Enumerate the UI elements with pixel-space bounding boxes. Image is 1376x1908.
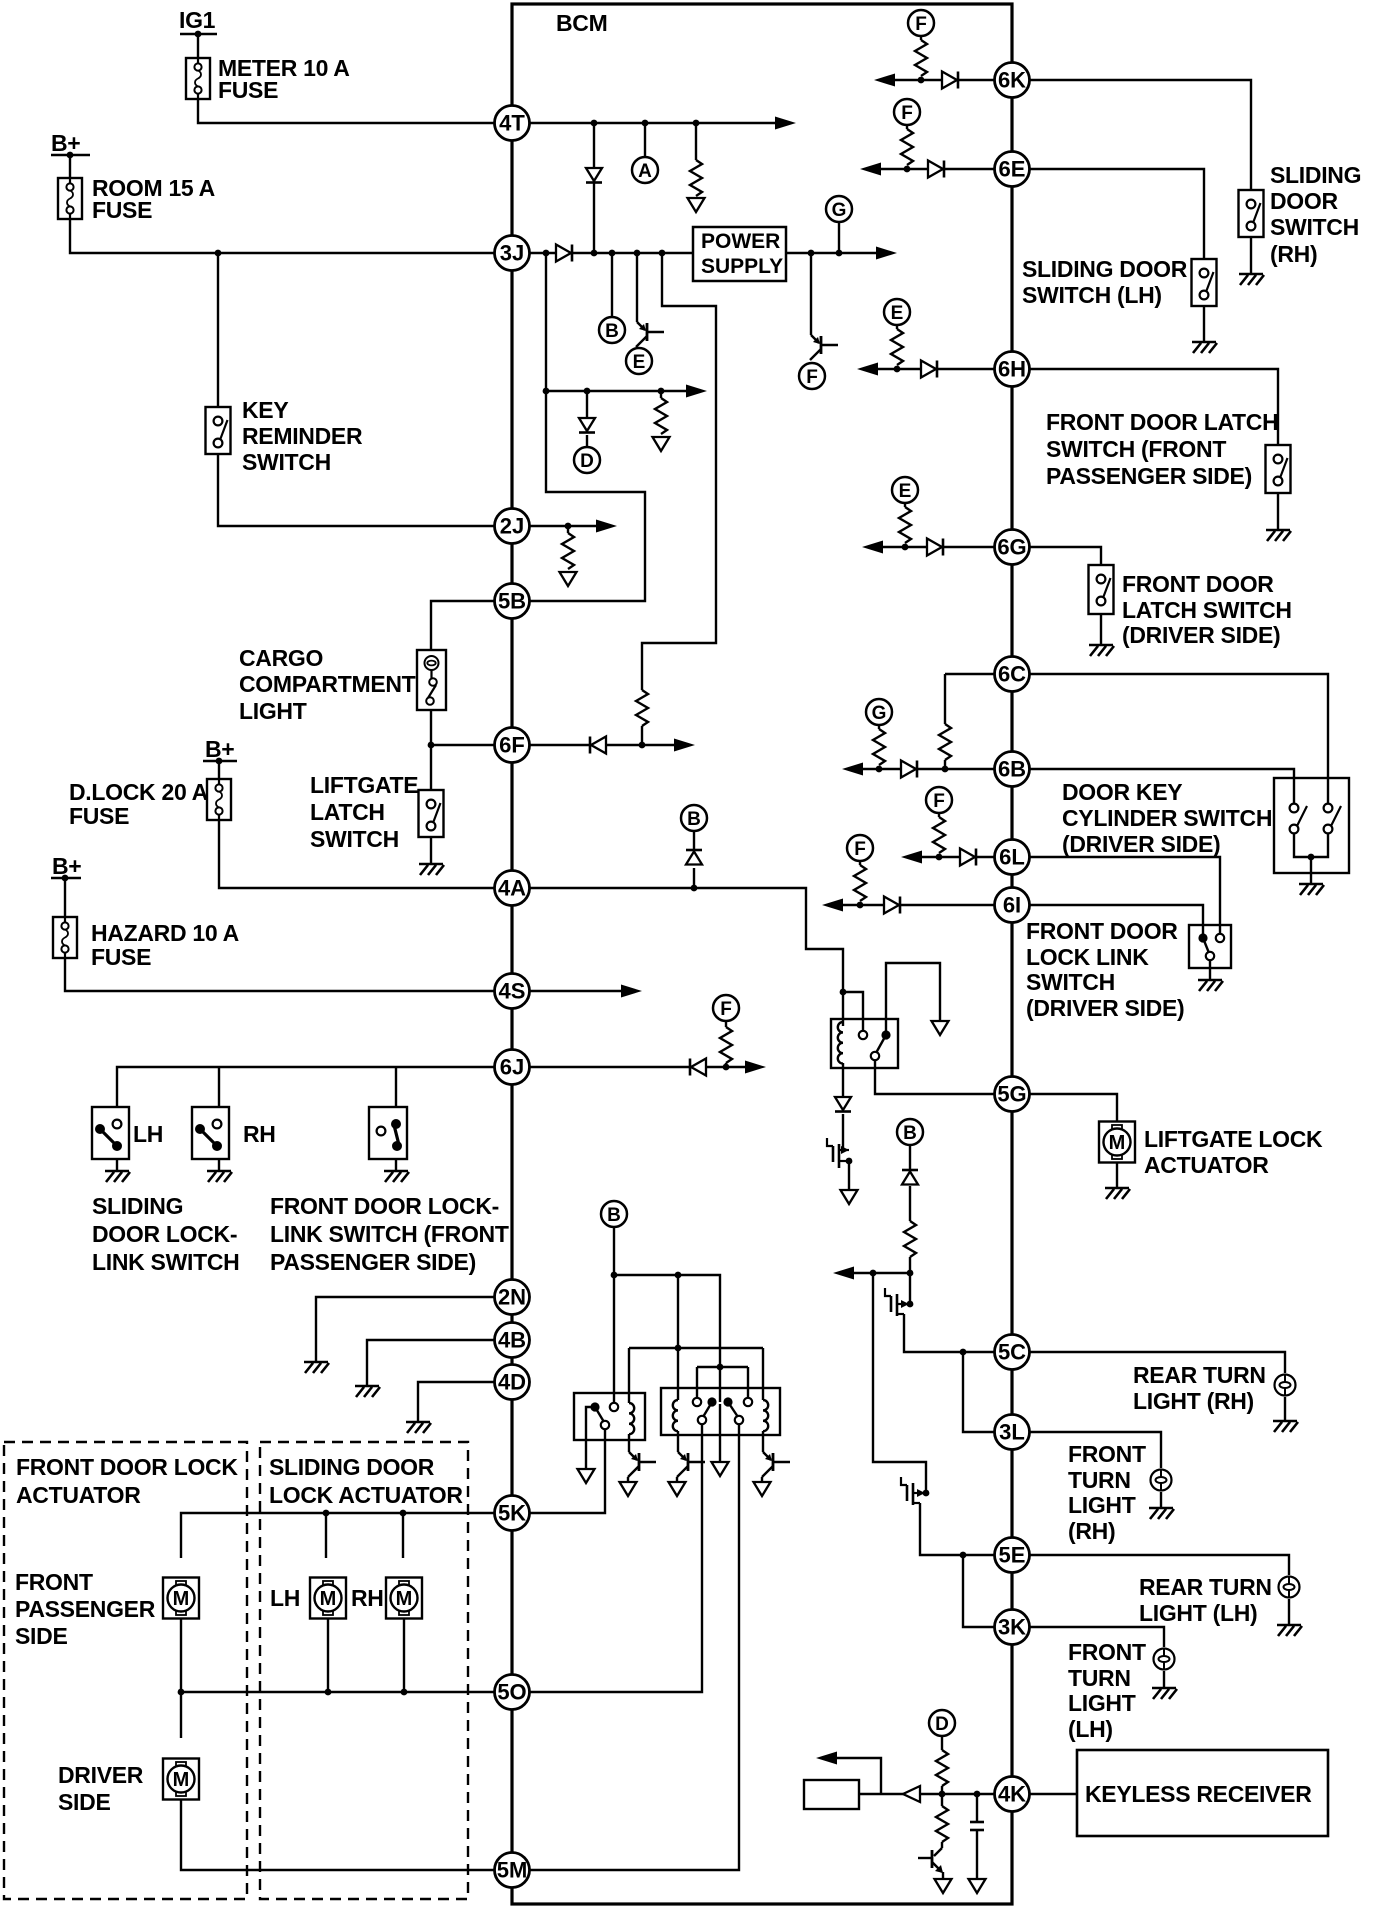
wire 6C inside (945, 673, 994, 675)
svg-text:G: G (832, 200, 847, 221)
junction 4T A (642, 120, 649, 127)
svg-text:FRONT: FRONT (1068, 1639, 1146, 1665)
diode relay coil (835, 1097, 851, 1110)
diode turn chain (902, 1169, 918, 1172)
wire to node B2 (693, 831, 695, 850)
ground driver latch switch (1089, 645, 1114, 656)
svg-text:(DRIVER SIDE): (DRIVER SIDE) (1026, 995, 1184, 1021)
wire B+ to d.lock fuse (218, 761, 220, 779)
svg-text:3K: 3K (998, 1615, 1026, 1640)
svg-text:6E: 6E (999, 157, 1026, 182)
wire 5K to LH motor (325, 1513, 327, 1558)
svg-text:SLIDING: SLIDING (92, 1193, 183, 1219)
relay1 pole (601, 1421, 609, 1429)
wire 5E to 3K (963, 1555, 994, 1627)
sliding door switch LH (1192, 259, 1217, 306)
wire resistor to junction (909, 1257, 911, 1273)
node F power (799, 363, 825, 389)
wire 6E to sliding door switch LH (1029, 169, 1204, 259)
wire 6K to sliding door switch RH (1029, 80, 1251, 190)
wire to node A (644, 123, 646, 157)
junction 6B 6C (942, 766, 949, 773)
wire coil bus right down (762, 1348, 764, 1400)
wire coil bus (629, 1347, 763, 1349)
svg-text:4A: 4A (498, 876, 526, 901)
wire transistor1 to ground (627, 1477, 629, 1482)
connector 5O (495, 1675, 530, 1710)
svg-text:E: E (633, 352, 646, 373)
wire resistor to 6F line (641, 726, 643, 745)
arrow 2J (596, 520, 617, 533)
svg-text:DOOR KEY: DOOR KEY (1062, 779, 1182, 805)
svg-text:LIFTGATE LOCK: LIFTGATE LOCK (1144, 1126, 1323, 1152)
svg-text:(DRIVER SIDE): (DRIVER SIDE) (1122, 622, 1280, 648)
wire 3L to front turn light RH (1029, 1432, 1161, 1468)
svg-text:F: F (933, 791, 945, 812)
node F 6J (713, 995, 739, 1021)
connector 5K (495, 1496, 530, 1531)
wire FP motor to 5O (180, 1619, 182, 1692)
ground 2N (304, 1362, 329, 1373)
svg-text:6B: 6B (998, 757, 1026, 782)
wire rear turn LH ground (1288, 1599, 1290, 1625)
svg-text:LIGHT: LIGHT (239, 698, 307, 724)
junction 3J e (659, 250, 666, 257)
wire coil feed left (677, 1275, 679, 1400)
diode D branch (579, 418, 595, 431)
MOSFET liftgate (839, 1149, 849, 1151)
wire MOSFET to ground arrow (848, 1161, 850, 1190)
ground liftgate latch (419, 864, 444, 875)
junction 2J (565, 523, 572, 530)
wire 6L line (907, 856, 994, 858)
motor driver side (163, 1759, 199, 1800)
relay1 contact closed (590, 1402, 599, 1411)
front door latch switch (front passenger side) (1266, 445, 1291, 493)
arrow D line (686, 385, 707, 398)
svg-text:SWITCH (LH): SWITCH (LH) (1022, 282, 1162, 308)
POWER SUPPLY box (693, 227, 786, 281)
wire B+ to hazard fuse (64, 878, 66, 917)
svg-text:M: M (1109, 1132, 1126, 1154)
wire 6C to door key cylinder switch (1029, 674, 1328, 803)
svg-text:F: F (806, 367, 818, 388)
relay1 coil (629, 1403, 634, 1434)
wire door key to ground (1310, 857, 1312, 884)
svg-text:F: F (901, 103, 913, 124)
diode 6L (960, 849, 975, 866)
arrow 6J (745, 1061, 766, 1074)
wire relay1 coil to transistor (628, 1434, 630, 1452)
wire 4T line (512, 122, 787, 124)
wire key reminder to 2J (218, 454, 494, 526)
relay2 pole right (735, 1416, 743, 1424)
svg-text:(RH): (RH) (1068, 1518, 1115, 1544)
wire 4K line (860, 1793, 994, 1795)
svg-text:DOOR: DOOR (1270, 188, 1338, 214)
wire door key cylinder join (1294, 833, 1328, 857)
wire 6I line (828, 904, 994, 906)
svg-text:FRONT DOOR: FRONT DOOR (1026, 918, 1178, 944)
svg-text:KEY: KEY (242, 397, 288, 423)
wire relay1 pole to 5K (512, 1429, 605, 1513)
front turn light RH lamp (1151, 1470, 1172, 1491)
svg-text:D: D (935, 1714, 949, 1735)
fuse METER 10 A (186, 58, 210, 99)
connector 5G (995, 1077, 1030, 1112)
front door lock-link switch (front passenger side) (369, 1107, 407, 1159)
svg-text:HAZARD 10 A: HAZARD 10 A (91, 920, 239, 946)
svg-text:5B: 5B (498, 589, 526, 614)
connector 3K (995, 1610, 1030, 1645)
BCM module box (512, 4, 1012, 1904)
svg-text:REAR TURN: REAR TURN (1139, 1574, 1272, 1600)
key reminder switch (206, 407, 231, 454)
diode 6K (942, 72, 957, 89)
junction D resistor (658, 388, 665, 395)
arrow 6G (862, 541, 883, 554)
wire keyless arrow up (824, 1758, 881, 1794)
junction 6J resistor (723, 1064, 730, 1071)
wire relay contact feed (843, 992, 863, 1031)
connector 4S (495, 974, 530, 1009)
wire B line to relay1 contact (613, 1275, 615, 1402)
svg-text:A: A (638, 161, 652, 182)
wire to key reminder switch (217, 253, 219, 407)
connector 6L (995, 840, 1030, 875)
connector 3J (495, 236, 530, 271)
node B turn (897, 1119, 923, 1145)
wire 6B line (848, 768, 994, 770)
relay2 contact open right (744, 1398, 752, 1406)
svg-text:FRONT DOOR: FRONT DOOR (1122, 571, 1274, 597)
capacitor keyless (976, 1794, 978, 1822)
junction 6I (857, 902, 864, 909)
resistor 6B G (878, 725, 880, 729)
svg-text:SUPPLY: SUPPLY (701, 255, 783, 278)
wire 5K bus (181, 1513, 494, 1558)
resistor 4T branch (695, 123, 697, 160)
ground arrow relay2 coil right (754, 1482, 771, 1496)
svg-text:5C: 5C (998, 1340, 1026, 1365)
rear turn light RH lamp (1275, 1375, 1296, 1396)
front door lock link switch (driver side) box (1189, 925, 1231, 968)
wire to MOSFET 5C (909, 1273, 911, 1304)
junction 6K (918, 77, 925, 84)
wire MOSFET 5E to 5E (920, 1503, 994, 1555)
node G 6B (866, 699, 892, 725)
wire 4B to ground (367, 1340, 494, 1386)
svg-text:SWITCH: SWITCH (1270, 214, 1359, 240)
wire relay pole to 5G (875, 1060, 994, 1094)
svg-text:SIDE: SIDE (58, 1789, 110, 1815)
connector 6K (995, 63, 1030, 98)
node F 6I (847, 835, 873, 861)
liftgate relay contact closed (881, 1030, 890, 1039)
svg-text:FUSE: FUSE (218, 77, 278, 103)
relay2 coil right (763, 1400, 768, 1431)
wire relay bus (614, 1275, 720, 1402)
junction 6F (639, 742, 646, 749)
ground lock link switch (1198, 980, 1223, 991)
node F 6L (926, 787, 952, 813)
connector 6F (495, 728, 530, 763)
svg-text:2N: 2N (498, 1285, 526, 1310)
svg-text:M: M (173, 1769, 190, 1791)
svg-text:DRIVER: DRIVER (58, 1762, 144, 1788)
wire relay2 center ground (719, 1404, 721, 1462)
node G (826, 196, 852, 222)
svg-text:6K: 6K (998, 68, 1026, 93)
door key cylinder contact R1 (1324, 804, 1333, 813)
junction power supply out (808, 250, 815, 257)
junction relay bus left (611, 1272, 618, 1279)
svg-text:FRONT: FRONT (1068, 1441, 1146, 1467)
wire 5C to 3L (963, 1352, 994, 1432)
fuse HAZARD 10 A (53, 917, 77, 958)
wire 6J to FP lock-link switch (395, 1067, 397, 1107)
motor RH (386, 1578, 422, 1619)
svg-text:BCM: BCM (556, 10, 607, 36)
svg-text:RH: RH (351, 1585, 384, 1611)
diode 6G (927, 539, 942, 556)
svg-text:FRONT DOOR LOCK: FRONT DOOR LOCK (16, 1454, 238, 1480)
wire room fuse to 3J (70, 219, 494, 253)
wire 6J bus (117, 1067, 494, 1107)
resistor keyless lower (941, 1794, 943, 1806)
connector 4T (495, 106, 530, 141)
diode 6I (884, 897, 899, 914)
wire transistor2l ground (676, 1477, 678, 1482)
ground FP latch switch (1266, 530, 1291, 541)
junction 6H (894, 366, 901, 373)
wire RH switch to ground (1250, 237, 1252, 274)
junction 6G (902, 544, 909, 551)
svg-text:POWER: POWER (701, 230, 780, 253)
connector 4B (495, 1323, 530, 1358)
wire front turn RH ground (1160, 1492, 1162, 1508)
fuse ROOM 15 A (58, 178, 82, 219)
wire 4D to ground (418, 1382, 494, 1422)
svg-text:LH: LH (133, 1121, 163, 1147)
svg-text:SLIDING DOOR: SLIDING DOOR (1022, 256, 1188, 282)
connector 4A (495, 871, 530, 906)
svg-text:PASSENGER SIDE): PASSENGER SIDE) (270, 1249, 476, 1275)
arrow 4T (775, 117, 796, 130)
svg-text:6I: 6I (1003, 893, 1021, 918)
resistor 6I (859, 861, 861, 865)
connector 6E (995, 152, 1030, 187)
wire 4A line (512, 888, 843, 1026)
svg-text:LINK SWITCH: LINK SWITCH (92, 1249, 239, 1275)
wire contact bus (697, 1366, 748, 1368)
ground 4B (355, 1386, 380, 1397)
transistor keyless (934, 1848, 942, 1856)
junction 5E 3K (960, 1552, 967, 1559)
wire 5G to liftgate lock actuator (1029, 1094, 1117, 1122)
connector 6I (995, 888, 1030, 923)
wire node B down (909, 1145, 911, 1170)
junction 5O RH (401, 1689, 408, 1696)
wire relay2 pole right to 5M (512, 1424, 739, 1870)
svg-text:PASSENGER: PASSENGER (15, 1596, 156, 1622)
wire 6G to front door latch switch driver (1029, 547, 1101, 565)
wire driver motor to 5M (181, 1800, 494, 1870)
arrow turn chain (833, 1267, 854, 1280)
ground arrow liftgate MOSFET (841, 1190, 858, 1204)
diode 4A branch (686, 849, 702, 852)
svg-text:TURN: TURN (1068, 1665, 1131, 1691)
svg-text:SWITCH: SWITCH (1026, 969, 1115, 995)
door key cylinder switch box (1274, 778, 1349, 873)
wire 5O bus (181, 1692, 494, 1738)
wire 6L to lock link switch (1029, 857, 1220, 934)
connector 6H (995, 352, 1030, 387)
wire 4T to 3J diode branch (593, 123, 595, 253)
wire D line (546, 390, 699, 392)
wire 6G line (868, 546, 994, 548)
svg-text:SWITCH (FRONT: SWITCH (FRONT (1046, 436, 1226, 462)
svg-text:LATCH: LATCH (310, 799, 385, 825)
svg-text:PASSENGER SIDE): PASSENGER SIDE) (1046, 463, 1252, 489)
ground RH switch (218, 1159, 220, 1171)
wire 5E to rear turn light LH (1029, 1555, 1289, 1575)
node F 6E (894, 99, 920, 125)
junction 5O LH (325, 1689, 332, 1696)
svg-text:FRONT DOOR LATCH: FRONT DOOR LATCH (1046, 409, 1278, 435)
liftgate relay contact open (859, 1031, 867, 1039)
arrow 6E (860, 163, 881, 176)
ground arrow relay2 center (712, 1462, 729, 1476)
rear turn light LH lamp (1279, 1577, 1300, 1598)
wire resistor to transistor (941, 1842, 943, 1848)
svg-text:REAR TURN: REAR TURN (1133, 1362, 1266, 1388)
ground arrow relay NC (932, 1021, 949, 1035)
arrow 6H (857, 363, 878, 376)
diode 6J (691, 1059, 706, 1076)
wire 6J to RH switch (218, 1067, 220, 1107)
svg-text:FRONT DOOR LOCK-: FRONT DOOR LOCK- (270, 1193, 499, 1219)
wire hazard fuse to 4S (65, 958, 494, 991)
lock link contact open (1216, 934, 1224, 942)
wire diode to MOSFET (842, 1114, 844, 1150)
junction relay bus mid (675, 1272, 682, 1279)
wire to liftgate latch switch (430, 745, 432, 790)
lock link pole (1206, 952, 1214, 960)
junction 6E (904, 166, 911, 173)
junction door key cylinder (1308, 854, 1315, 861)
wire 4K to keyless receiver (1029, 1793, 1077, 1795)
svg-text:5O: 5O (497, 1680, 526, 1705)
svg-text:CARGO: CARGO (239, 645, 323, 671)
junction 6B G (876, 766, 883, 773)
diode 4T branch (586, 168, 602, 181)
wire to transistor E (636, 253, 638, 322)
svg-text:(RH): (RH) (1270, 241, 1317, 267)
svg-text:D: D (580, 451, 594, 472)
wire 6E line (866, 168, 994, 170)
junction 3J c (609, 250, 616, 257)
buffer triangle keyless (903, 1786, 920, 1802)
wire arrow turn (841, 1272, 910, 1274)
wire relay coil to diode (842, 1063, 844, 1097)
door key cylinder blade R (1331, 806, 1341, 826)
wire 3J line (512, 252, 888, 254)
connector 6G (995, 530, 1030, 565)
ground sliding door switch LH (1192, 342, 1217, 353)
resistor 6K (920, 36, 922, 40)
ground rear turn light RH (1273, 1421, 1298, 1432)
wire relay2 coil right transistor (762, 1431, 764, 1452)
resistor keyless upper (936, 1750, 948, 1786)
relay2 contact open left (693, 1398, 701, 1406)
ground front turn light RH (1149, 1508, 1174, 1519)
wire relay1 NC to ground (586, 1407, 595, 1469)
junction 5O FP (178, 1689, 185, 1696)
wire D line to 5B (512, 391, 645, 601)
svg-text:LIFTGATE: LIFTGATE (310, 772, 418, 798)
svg-text:F: F (915, 14, 927, 35)
arrow keyless (816, 1752, 837, 1765)
svg-text:LIGHT (RH): LIGHT (RH) (1133, 1388, 1254, 1414)
ground 4D (406, 1422, 431, 1433)
connector 5E (995, 1538, 1030, 1573)
svg-text:6L: 6L (999, 845, 1025, 870)
wire contact left down (696, 1367, 698, 1397)
svg-text:4K: 4K (998, 1782, 1026, 1807)
relay1 contact open (610, 1403, 618, 1411)
junction 3J d (634, 250, 641, 257)
node E (626, 348, 652, 374)
MOSFET 5C (907, 1301, 914, 1308)
svg-text:2J: 2J (500, 514, 524, 539)
junction 4A diode B (691, 885, 698, 892)
svg-text:IG1: IG1 (179, 7, 216, 33)
diode 6E (928, 161, 943, 178)
wire IG1 to fuse (197, 34, 199, 58)
ground rear turn light LH (1277, 1625, 1302, 1636)
front turn light LH lamp (1154, 1649, 1175, 1670)
resistor 6E (906, 125, 908, 129)
wire LH switch to ground (1203, 306, 1205, 342)
door key cylinder contact L1 (1290, 804, 1299, 813)
node B relays (601, 1201, 627, 1227)
wire driver latch switch to ground (1100, 614, 1102, 645)
ground liftgate lock actuator (1105, 1188, 1130, 1199)
transistor relay2 left (678, 1452, 686, 1460)
connector 3L (995, 1415, 1030, 1450)
svg-text:FRONT: FRONT (15, 1569, 93, 1595)
svg-text:4T: 4T (499, 111, 525, 136)
wire diode to node D (586, 435, 588, 447)
resistor 2J branch (567, 526, 569, 533)
svg-text:SWITCH: SWITCH (242, 449, 331, 475)
svg-text:M: M (396, 1588, 413, 1610)
diode 6B (901, 761, 916, 778)
arrow 6B (842, 763, 863, 776)
svg-text:REMINDER: REMINDER (242, 423, 363, 449)
diode 6H (921, 361, 936, 378)
wire relay2 pole left to 5O (512, 1424, 702, 1692)
svg-text:6G: 6G (997, 535, 1026, 560)
node B (599, 317, 625, 343)
relay1 blade (595, 1407, 604, 1422)
arrow 6F (674, 739, 695, 752)
node F 6K (908, 10, 934, 36)
resistor above 6F (636, 690, 648, 726)
resistor 6C branch (939, 724, 951, 760)
svg-text:E: E (891, 303, 904, 324)
